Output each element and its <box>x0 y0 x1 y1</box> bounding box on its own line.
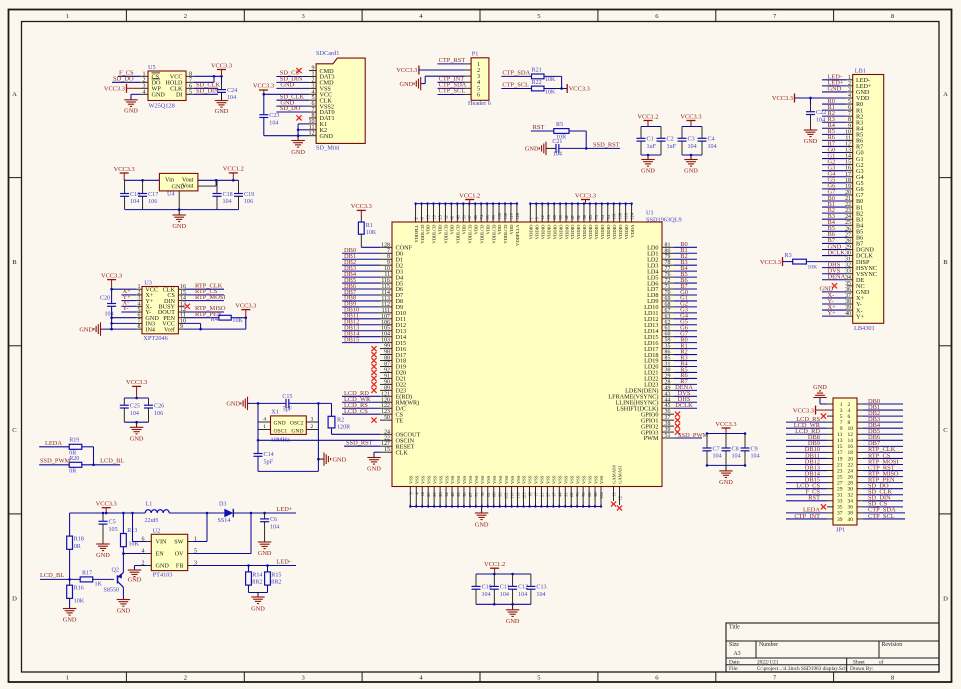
svg-text:VCC3.3: VCC3.3 <box>351 203 372 210</box>
power VCC3.3 at U5 pin3 <box>126 84 128 93</box>
wire <box>674 288 697 290</box>
capacitor C5 105 <box>102 513 104 521</box>
wire <box>786 470 827 472</box>
wire <box>342 330 380 332</box>
svg-text:U3: U3 <box>144 279 152 286</box>
ground below C8 <box>725 465 727 471</box>
no-ERC marker on U1 pin 36 <box>675 412 680 417</box>
svg-text:VSS: VSS <box>444 475 449 484</box>
wire <box>185 311 225 313</box>
svg-text:101: 101 <box>612 213 617 219</box>
svg-text:SS14: SS14 <box>218 518 231 524</box>
svg-text:GND: GND <box>506 618 520 625</box>
svg-text:D3: D3 <box>219 502 226 508</box>
ground below C3 C4 <box>690 155 692 160</box>
svg-text:23: 23 <box>432 493 437 497</box>
svg-text:VSS: VSS <box>581 475 586 484</box>
svg-text:CTP_SCL: CTP_SCL <box>502 82 529 89</box>
svg-text:VSS: VSS <box>498 475 503 484</box>
wire <box>822 248 847 250</box>
no-ERC marker LB1 pin35 <box>832 283 837 288</box>
svg-text:R4: R4 <box>211 317 218 323</box>
wire <box>342 294 380 296</box>
ground below C5 <box>96 543 109 545</box>
ground below U2 GND pin <box>128 569 141 571</box>
wire <box>674 294 697 296</box>
svg-text:VSS: VSS <box>563 475 568 484</box>
wire GND/IN3/IN4 tie <box>112 317 136 319</box>
capacitor C4 104 <box>701 127 703 139</box>
capacitor C3 104 <box>681 127 683 139</box>
svg-text:VDDIO: VDDIO <box>540 224 545 239</box>
power VCC3.3 at LB1 VDD <box>794 93 796 102</box>
svg-text:EN: EN <box>156 551 165 558</box>
svg-text:C20: C20 <box>100 295 110 301</box>
svg-text:88: 88 <box>492 493 497 497</box>
wire <box>674 389 697 391</box>
svg-text:R19: R19 <box>69 438 79 444</box>
svg-text:A: A <box>12 91 17 98</box>
svg-text:104: 104 <box>553 152 562 158</box>
svg-text:VCC1.2: VCC1.2 <box>459 192 480 199</box>
svg-text:PT4103: PT4103 <box>153 572 173 579</box>
inductor L1 22uH <box>145 510 169 513</box>
wire VIN <box>132 513 134 542</box>
wire <box>822 309 847 311</box>
wire <box>342 270 380 272</box>
ground left of C15 <box>247 397 249 410</box>
wire <box>822 79 847 81</box>
power VCC1.2 above U1 <box>465 199 474 201</box>
wire <box>863 482 903 484</box>
svg-text:VSS: VSS <box>492 475 497 484</box>
svg-text:R1: R1 <box>366 223 373 229</box>
wire <box>674 377 697 379</box>
svg-text:71: 71 <box>474 493 479 497</box>
wire <box>822 212 847 214</box>
wire <box>342 264 380 266</box>
wire X1 pin1 <box>258 429 271 431</box>
svg-text:VSS: VSS <box>575 475 580 484</box>
ground at U1 CLK pin <box>367 457 380 459</box>
svg-text:File:: File: <box>729 666 739 672</box>
wire SW <box>193 541 207 543</box>
wire <box>822 121 847 123</box>
wire <box>707 433 745 435</box>
wire <box>342 336 380 338</box>
svg-text:VDDLCD: VDDLCD <box>491 224 496 244</box>
svg-text:39: 39 <box>837 517 843 523</box>
svg-text:SD_DO: SD_DO <box>113 76 134 83</box>
no-ERC marker on BUSY <box>185 304 190 309</box>
wire <box>674 264 697 266</box>
capacitor C22 104 <box>810 98 812 104</box>
wire <box>786 464 827 466</box>
power VCC3.3 above U1 <box>581 199 590 201</box>
wire <box>131 93 140 95</box>
svg-text:8R2: 8R2 <box>271 580 281 586</box>
wire <box>863 415 903 417</box>
wire <box>82 446 94 448</box>
svg-text:8R2: 8R2 <box>252 580 262 586</box>
wire <box>438 81 465 83</box>
svg-text:R18: R18 <box>74 537 84 543</box>
wire <box>438 87 465 89</box>
no-ERC marker on SD pin 9 <box>296 68 301 73</box>
svg-text:12: 12 <box>540 215 545 219</box>
svg-text:110: 110 <box>510 493 515 499</box>
wire <box>795 97 847 99</box>
wire <box>682 126 702 128</box>
svg-text:SD_Mini: SD_Mini <box>316 145 340 152</box>
svg-text:VCC3.3: VCC3.3 <box>772 95 793 102</box>
svg-text:117: 117 <box>509 212 514 219</box>
svg-text:C13: C13 <box>536 585 546 591</box>
wire <box>342 276 380 278</box>
svg-text:VCC3.3: VCC3.3 <box>680 113 701 120</box>
wire <box>674 270 697 272</box>
svg-text:8: 8 <box>138 324 141 330</box>
resistor R18 0R <box>69 513 71 536</box>
svg-text:SD_DO: SD_DO <box>280 105 301 112</box>
wire <box>786 482 827 484</box>
svg-text:VDD: VDD <box>509 224 514 235</box>
svg-text:U2: U2 <box>153 527 161 534</box>
svg-text:GND: GND <box>63 617 77 624</box>
wire <box>276 105 309 107</box>
svg-text:VSS: VSS <box>534 475 539 484</box>
wire U2 GND pin <box>135 565 147 567</box>
svg-text:0R: 0R <box>74 544 82 550</box>
svg-text:GND: GND <box>124 108 138 115</box>
wire <box>674 258 697 260</box>
boost converter U2 PT4103 <box>151 534 187 570</box>
wire <box>822 194 847 196</box>
resistor R1 10K <box>360 216 362 222</box>
wire <box>822 230 847 232</box>
no-ERC marker on U1 pin 37 <box>675 418 680 423</box>
wire <box>39 464 69 466</box>
U1 pin 24 OSCOUT <box>380 433 392 435</box>
resistor R15 8R2 <box>267 566 269 572</box>
svg-text:VSS: VSS <box>486 475 491 484</box>
wire <box>786 476 827 478</box>
wire <box>674 282 697 284</box>
wire <box>233 512 296 514</box>
wire <box>674 360 697 362</box>
capacitor C26 106 <box>148 398 150 405</box>
svg-text:GND: GND <box>804 138 818 145</box>
wire <box>641 154 661 156</box>
U1 pin 15 CLK <box>380 451 392 453</box>
wire bottom rail GND <box>410 506 601 508</box>
wire <box>863 494 903 496</box>
svg-text:L1: L1 <box>146 502 153 508</box>
svg-text:VSS: VSS <box>480 475 485 484</box>
wire <box>185 294 225 296</box>
svg-text:VCC3.3: VCC3.3 <box>101 272 122 279</box>
wire <box>544 75 562 77</box>
svg-text:VDDLCD: VDDLCD <box>456 224 461 244</box>
wire <box>674 276 697 278</box>
svg-text:VDDIO: VDDIO <box>546 224 551 239</box>
svg-text:VDDIO: VDDIO <box>576 224 581 239</box>
svg-text:104: 104 <box>732 454 741 460</box>
svg-text:104: 104 <box>482 592 491 598</box>
svg-text:GAMAS1: GAMAS1 <box>618 464 623 484</box>
wire <box>822 127 847 129</box>
capacitor C2 1uF <box>660 127 662 139</box>
svg-text:GND: GND <box>152 92 166 99</box>
resistor R19 0R <box>69 444 82 449</box>
svg-text:C14: C14 <box>264 452 274 458</box>
power VCC3.3 at JP1 pin3 <box>815 406 817 415</box>
svg-text:1K: 1K <box>95 581 103 587</box>
wire <box>822 279 847 281</box>
wire <box>198 179 239 181</box>
svg-text:VSS: VSS <box>414 475 419 484</box>
capacitor C20 104 <box>111 289 113 303</box>
svg-text:VSS: VSS <box>504 475 509 484</box>
diode D3 SS14 <box>224 509 233 517</box>
wire <box>707 464 745 466</box>
svg-text:78: 78 <box>581 493 586 497</box>
wire <box>674 318 697 320</box>
wire <box>822 255 847 257</box>
svg-text:C8: C8 <box>732 446 739 452</box>
svg-text:VSS: VSS <box>587 475 592 484</box>
svg-text:GND: GND <box>258 550 272 557</box>
ground at P1 pin3 <box>420 77 422 90</box>
wire X1 pin2 <box>306 429 318 431</box>
svg-text:U4: U4 <box>167 190 176 197</box>
ground at U5 pin4 <box>124 99 137 101</box>
wire X1 pin4 <box>258 421 271 423</box>
svg-text:SD_DIN: SD_DIN <box>196 88 219 95</box>
wire <box>786 457 827 459</box>
power VCC1.2 above C10-C13 <box>490 567 499 569</box>
svg-text:LED-: LED- <box>277 558 292 565</box>
wire <box>264 93 309 95</box>
svg-text:Title: Title <box>729 625 740 631</box>
ground below C6 <box>258 541 271 543</box>
capacitor C9 104 <box>744 434 746 449</box>
svg-text:28: 28 <box>438 493 443 497</box>
power VCC3.3 above C3 C4 <box>687 120 696 122</box>
resistor R13 10K <box>122 513 124 534</box>
svg-text:15: 15 <box>384 447 390 453</box>
capacitor C15 5pF <box>248 402 287 404</box>
svg-text:Q2: Q2 <box>112 567 119 573</box>
no-ERC marker on SD pin 8 <box>296 115 301 120</box>
svg-text:X1: X1 <box>271 409 279 416</box>
wire <box>276 99 309 101</box>
U1 pin 127 RESET <box>380 445 392 447</box>
no-ERC marker on U1 pin 87 <box>371 364 376 369</box>
wire <box>531 130 554 132</box>
wire <box>342 306 380 308</box>
power VCC3.3 above C7 C8 C9 <box>722 427 731 429</box>
svg-text:Vout: Vout <box>182 183 194 190</box>
wire <box>863 433 903 435</box>
svg-text:GND: GND <box>333 456 347 463</box>
wire <box>674 300 697 302</box>
svg-text:A: A <box>943 91 948 98</box>
svg-text:102: 102 <box>504 493 509 499</box>
wire <box>822 218 847 220</box>
svg-text:VDDIO: VDDIO <box>558 224 563 239</box>
svg-text:104: 104 <box>270 525 279 531</box>
crystal X1 10MHz <box>271 416 307 435</box>
svg-text:D: D <box>943 595 948 602</box>
no-ERC marker on U1 pin 38 <box>675 424 680 429</box>
svg-text:104: 104 <box>223 199 232 205</box>
interface header JP1 <box>833 398 857 525</box>
svg-text:VDDIO: VDDIO <box>552 224 557 239</box>
svg-text:0R: 0R <box>69 469 77 475</box>
svg-text:22uH: 22uH <box>145 518 159 524</box>
svg-text:5: 5 <box>534 217 539 219</box>
svg-text:C19: C19 <box>244 192 254 198</box>
svg-text:VDDIO: VDDIO <box>534 224 539 239</box>
svg-text:VSS: VSS <box>420 475 425 484</box>
capacitor C1 1uF <box>640 127 642 139</box>
wire <box>863 445 903 447</box>
wire <box>674 354 697 356</box>
svg-text:1: 1 <box>66 13 69 20</box>
svg-text:75: 75 <box>594 215 599 219</box>
U1 top power pins VCC1.2 group <box>415 205 417 223</box>
svg-text:10K: 10K <box>545 89 556 95</box>
svg-text:R2: R2 <box>337 417 344 423</box>
wire <box>822 224 847 226</box>
U4 second Vout pin <box>198 185 216 187</box>
svg-text:C16: C16 <box>130 192 140 198</box>
capacitor C11 104 <box>493 574 495 586</box>
wire <box>674 312 697 314</box>
wire <box>194 87 218 89</box>
svg-text:GND: GND <box>79 326 93 333</box>
svg-text:GND: GND <box>280 82 294 89</box>
svg-text:104: 104 <box>751 454 760 460</box>
capacitor C10 104 <box>475 574 477 586</box>
svg-text:LEDA: LEDA <box>45 440 62 447</box>
wire <box>786 445 827 447</box>
svg-text:VCC3.3: VCC3.3 <box>715 421 736 428</box>
no-ERC marker on U1 pin 91 <box>371 376 376 381</box>
svg-text:C23: C23 <box>269 113 279 119</box>
wire <box>822 133 847 135</box>
wire <box>112 81 140 83</box>
svg-text:VCC3.3: VCC3.3 <box>114 166 135 173</box>
power VCC3.3 above C25 C26 <box>132 385 141 387</box>
svg-text:VSS: VSS <box>516 475 521 484</box>
svg-text:104: 104 <box>816 117 825 123</box>
wire <box>674 306 697 308</box>
wire <box>786 421 827 423</box>
svg-text:VDD: VDD <box>450 224 455 235</box>
svg-text:C26: C26 <box>154 404 164 410</box>
wire <box>822 315 847 317</box>
svg-text:52: 52 <box>576 215 581 219</box>
svg-text:VSS: VSS <box>432 475 437 484</box>
transistor Q2 S8550 <box>117 575 119 583</box>
svg-text:GND: GND <box>128 577 142 584</box>
wire <box>641 126 661 128</box>
svg-text:VDDA: VDDA <box>630 224 635 238</box>
svg-text:104: 104 <box>130 411 139 417</box>
svg-text:VDD: VDD <box>485 224 490 235</box>
svg-text:6: 6 <box>477 91 480 98</box>
svg-text:3: 3 <box>408 493 413 495</box>
wire <box>82 464 120 466</box>
wire <box>276 111 309 113</box>
svg-text:C22: C22 <box>816 110 826 116</box>
svg-text:GND: GND <box>684 168 698 175</box>
svg-text:93: 93 <box>491 215 496 219</box>
wire <box>822 109 847 111</box>
svg-text:C25: C25 <box>130 404 140 410</box>
wire <box>674 366 697 368</box>
svg-text:GAMAS0: GAMAS0 <box>612 464 617 484</box>
svg-text:B: B <box>12 259 17 266</box>
svg-text:10K: 10K <box>808 264 818 270</box>
svg-text:S8550: S8550 <box>104 588 120 594</box>
svg-text:VDDIO: VDDIO <box>618 224 623 239</box>
svg-text:VSS: VSS <box>474 475 479 484</box>
wire crystal bottom rail <box>258 470 318 472</box>
svg-text:VDDLCD: VDDLCD <box>420 224 425 244</box>
controller U1 SSD1963QL9 <box>392 222 662 487</box>
svg-text:10K: 10K <box>232 318 243 324</box>
svg-text:GND: GND <box>320 133 334 140</box>
svg-text:VDD: VDD <box>473 224 478 235</box>
svg-text:18: 18 <box>546 215 551 219</box>
wire <box>185 288 225 290</box>
svg-text:VCC3.3: VCC3.3 <box>793 407 814 414</box>
svg-text:VDDIO: VDDIO <box>529 224 534 239</box>
wire <box>863 506 903 508</box>
svg-text:GND: GND <box>96 552 110 559</box>
svg-text:GND: GND <box>291 149 305 156</box>
svg-text:XPT2046: XPT2046 <box>143 335 168 342</box>
wire <box>786 433 827 435</box>
svg-text:104: 104 <box>536 592 545 598</box>
svg-text:C24: C24 <box>227 88 237 94</box>
svg-text:CLK: CLK <box>396 449 409 456</box>
svg-text:LCD_BL: LCD_BL <box>100 458 124 465</box>
wire <box>786 512 827 514</box>
svg-text:C15: C15 <box>282 394 292 400</box>
wire <box>344 445 380 447</box>
ground below C22 <box>804 129 817 131</box>
svg-text:R16: R16 <box>74 586 84 592</box>
svg-text:P1: P1 <box>472 50 479 57</box>
svg-text:106: 106 <box>148 199 157 205</box>
svg-text:VDDIO: VDDIO <box>624 224 629 239</box>
wire <box>863 421 903 423</box>
svg-text:CTP_SDA: CTP_SDA <box>502 69 530 76</box>
wire <box>822 303 847 305</box>
no-ERC marker on U1 pin 98 <box>371 352 376 357</box>
svg-text:VSS: VSS <box>456 475 461 484</box>
svg-text:108: 108 <box>503 213 508 219</box>
svg-text:VSS: VSS <box>426 475 431 484</box>
svg-text:VIN: VIN <box>156 539 168 546</box>
power VCC1.2 above C1 C2 <box>644 120 653 122</box>
svg-text:12: 12 <box>618 496 623 500</box>
wire <box>863 470 903 472</box>
